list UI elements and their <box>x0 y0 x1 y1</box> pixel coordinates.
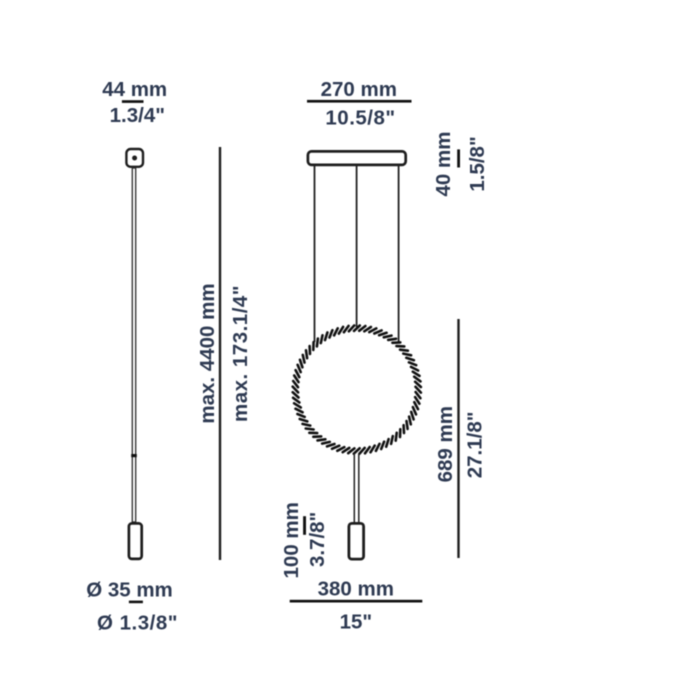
svg-text:380 mm: 380 mm <box>318 578 394 601</box>
svg-text:Ø 35 mm: Ø 35 mm <box>86 579 173 602</box>
svg-text:max. 173.1/4": max. 173.1/4" <box>229 285 252 422</box>
svg-text:15": 15" <box>340 610 373 633</box>
svg-text:10.5/8": 10.5/8" <box>325 106 395 129</box>
svg-text:Ø 1.3/8": Ø 1.3/8" <box>97 611 178 634</box>
svg-text:max. 4400 mm: max. 4400 mm <box>196 283 219 423</box>
svg-text:270 mm: 270 mm <box>321 78 397 101</box>
svg-text:3.7/8": 3.7/8" <box>306 512 329 567</box>
svg-text:44 mm: 44 mm <box>102 78 167 101</box>
svg-text:1.3/4": 1.3/4" <box>110 104 165 127</box>
svg-text:1.5/8": 1.5/8" <box>466 136 489 191</box>
svg-text:689 mm: 689 mm <box>434 406 457 482</box>
svg-text:100 mm: 100 mm <box>280 502 303 578</box>
svg-text:27.1/8": 27.1/8" <box>463 412 486 479</box>
svg-text:40 mm: 40 mm <box>432 132 455 197</box>
